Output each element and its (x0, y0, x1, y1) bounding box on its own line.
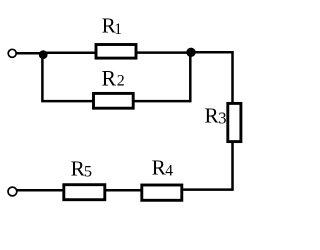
wire: R5 left pin to terminal T2 (17, 189, 64, 192)
wire: riser up to node B (189, 52, 192, 102)
wire: node B to top-right corner (191, 51, 233, 54)
svg-text:R: R (102, 67, 117, 91)
resistor R3 (228, 103, 241, 141)
terminal T1 (top-left input) (8, 49, 16, 57)
resistor R4 (142, 185, 182, 200)
wire: bottom-right corner to R4 right pin (181, 188, 233, 191)
wire: node A down to R2 row (41, 53, 44, 101)
wire: left elbow to R2 left pin (41, 100, 93, 103)
wire: R2 right pin to riser (133, 100, 191, 103)
wire: node A to R1 left pin (43, 52, 96, 55)
svg-text:2: 2 (117, 73, 125, 90)
wire: terminal T1 to node A (16, 52, 43, 55)
resistor R5 (64, 185, 105, 200)
node A (left junction dot) (39, 50, 48, 59)
resistor R1 (96, 45, 136, 59)
svg-text:3: 3 (218, 108, 226, 127)
wire: R4 left pin to R5 right pin (105, 189, 142, 192)
wire: R3 bottom pin down to bottom-right corner (231, 142, 234, 190)
terminal T2 (bottom-left output) (8, 187, 17, 196)
wire: R1 right pin to node B (136, 51, 191, 54)
resistor R2 (94, 93, 134, 108)
node B (right junction dot) (186, 48, 195, 57)
wire: top-right corner down to R3 top pin (231, 51, 234, 103)
svg-text:5: 5 (84, 161, 92, 180)
svg-text:4: 4 (165, 163, 173, 180)
svg-text:1: 1 (114, 21, 122, 38)
